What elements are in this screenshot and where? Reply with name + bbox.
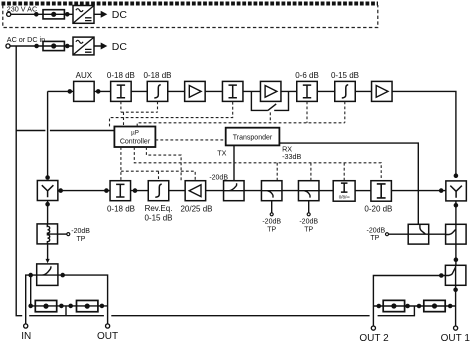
wire RA1 to REQ [131, 190, 149, 192]
junction dot Y2 bottom [454, 204, 457, 207]
dashed link controller-transponder [155, 139, 225, 141]
equalizer EQ1 0-18dB [147, 81, 168, 101]
svg-text:TP: TP [370, 235, 379, 242]
dashed riser A3 [306, 102, 308, 123]
dashed drop B5 to plug attenuator [343, 163, 345, 181]
svg-text:Transponder: Transponder [233, 135, 273, 142]
svg-text:AUX: AUX [76, 71, 93, 80]
junction dot AUX out [97, 90, 100, 93]
wire C2 to plug attenuator [319, 190, 333, 192]
wire plug att to 0-20dB att [355, 190, 371, 192]
output selector switch box S3 [445, 265, 466, 285]
junction dot Y1 right [59, 189, 62, 192]
dashed bus B3 [137, 123, 345, 127]
TX injection coupler [224, 181, 245, 201]
mains dashed enclosure [2, 4, 379, 28]
wire RA2 to Y2 [392, 190, 446, 192]
svg-text:0-15 dB: 0-15 dB [144, 213, 172, 222]
wire IN/OUT fuse rail [31, 305, 108, 307]
wire OUT1/OUT2 fuse rail [373, 305, 455, 307]
tap switch box (forward TP) [446, 224, 467, 244]
DC arrow 2 [101, 43, 108, 50]
wire S3 to OUT1 [455, 285, 457, 326]
svg-text:0-6 dB: 0-6 dB [295, 71, 319, 80]
svg-text:Rev.Eq.: Rev.Eq. [145, 204, 173, 213]
wire RX switch to tap switch [429, 233, 446, 235]
switch bypass S1 [268, 104, 276, 111]
dashed bus B1 [121, 111, 158, 113]
dashed bus B5 [134, 147, 381, 180]
wire C1 to C2 [282, 190, 298, 192]
junction dot Y1 top [46, 176, 49, 179]
diplex filter Y2 [446, 181, 467, 201]
equalizer EQ2 0-15dB [335, 81, 356, 101]
junction dot between switches [454, 258, 457, 261]
wire TP stub C1 [271, 201, 273, 213]
attenuator RA2 0-20dB [371, 181, 392, 202]
junction dots row 1 [35, 13, 38, 16]
junction dot into Y2 top [454, 174, 457, 177]
junction dot switch left [29, 274, 32, 277]
test point circle C1 [270, 213, 273, 216]
svg-text:OUT: OUT [97, 331, 118, 342]
svg-text:0-18 dB: 0-18 dB [107, 205, 135, 214]
test point circle RX TP [386, 233, 389, 236]
return amplifier RG 20/25dB [185, 181, 206, 201]
svg-text:AC or DC in: AC or DC in [7, 35, 45, 44]
wire Y2 bottom to tap switch [455, 201, 457, 224]
svg-text:0-18 dB: 0-18 dB [107, 71, 135, 80]
dashed control riser A1 [120, 102, 122, 113]
svg-text:TP: TP [304, 227, 313, 234]
power extraction coil box [37, 224, 58, 244]
wire REQ to return amp [169, 190, 185, 192]
svg-text:OUT 2: OUT 2 [359, 333, 389, 344]
svg-text:TP: TP [267, 227, 276, 234]
wire forward input riser (Y1 top to AUX line) [47, 91, 49, 177]
fuse F5 (OUT2) [383, 300, 404, 311]
wire bottom power line segment 2 [29, 315, 104, 317]
transponder U2 box [226, 128, 280, 146]
svg-text:DC: DC [112, 9, 128, 21]
junction dot switch right [61, 274, 64, 277]
svg-text:DC: DC [112, 41, 128, 53]
dashed drop B1 to controller [123, 112, 125, 126]
dashed drop B5 to TP coupler 1 [276, 163, 278, 181]
junction dot return in [105, 189, 108, 192]
AC/DC converter PSU1 [73, 6, 94, 24]
junction dot below S3 [454, 288, 457, 291]
wire RX TP circle to switch [389, 233, 409, 235]
junction dot Y1 bottom [46, 203, 49, 206]
wire mains row 2 [10, 45, 101, 47]
svg-text:0-15 dB: 0-15 dB [331, 71, 359, 80]
svg-text:-20dB: -20dB [71, 228, 90, 235]
controller U1 box [114, 127, 155, 148]
terminal OUT [106, 324, 110, 328]
test point circle C2 [307, 213, 310, 216]
plug attenuator 0/8/inf [333, 181, 355, 202]
svg-text:-33dB: -33dB [282, 152, 301, 161]
return attenuator RA1 0-18dB [110, 181, 131, 201]
svg-text:0-20 dB: 0-20 dB [364, 205, 392, 214]
svg-text:-20dB: -20dB [367, 228, 386, 235]
attenuator A2 [222, 81, 243, 101]
wire bottom power line segment 4 [378, 306, 415, 316]
attenuator A3 0-6dB [297, 81, 318, 101]
svg-text:-20dB: -20dB [209, 174, 228, 181]
terminal AC/DC input [6, 44, 10, 48]
wire Y1 bottom to coil coupler [47, 201, 49, 224]
amplifier G1 [185, 81, 206, 101]
svg-text:0/8/∞: 0/8/∞ [339, 194, 350, 199]
svg-text:-20dB: -20dB [262, 218, 281, 225]
svg-text:0-18 dB: 0-18 dB [143, 71, 171, 80]
wire RX from transponder to right riser [279, 143, 418, 224]
arrow into input switch [46, 259, 50, 263]
dashed bus B6 return row [121, 147, 195, 180]
wire IN port to switch [26, 275, 37, 324]
svg-text:µP: µP [131, 130, 139, 137]
test point circle coil [67, 233, 70, 236]
wire forward output to right riser [392, 91, 456, 177]
junction dot RA1 out [133, 189, 136, 192]
wire TX coupler to TP coupler 1 [244, 190, 261, 192]
svg-text:IN: IN [21, 331, 31, 342]
amplifier G2 with bypass [260, 81, 281, 101]
DC arrow 1 [101, 11, 108, 18]
input switch box S2 [37, 264, 58, 286]
dashed control riser EQ1 [157, 102, 159, 113]
wire S3 to OUT2 [373, 276, 445, 327]
AC/DC converter PSU2 [73, 37, 94, 55]
wire forward path AUX row [48, 90, 372, 92]
TP coupler C2 [298, 181, 319, 201]
svg-text:TP: TP [77, 236, 86, 243]
attenuator A1 0-18dB [111, 81, 131, 101]
RX test point switch box [408, 224, 429, 244]
svg-text:TX: TX [217, 148, 226, 157]
terminal IN [24, 324, 28, 328]
wire coil tap to test point [58, 233, 67, 235]
dashed drop B6 to return EQ [158, 171, 160, 180]
wire fuse rail riser left [30, 275, 32, 306]
TP coupler C1 [261, 181, 282, 201]
fuse F6 (OUT1) [424, 300, 445, 311]
junction dot into Y2 left [440, 189, 443, 192]
svg-text:20/25 dB: 20/25 dB [180, 205, 212, 214]
wire TX from transponder down [233, 145, 235, 180]
fuse F1 [43, 10, 64, 19]
terminal OUT2 [371, 326, 375, 330]
fuse F4 (OUT) [77, 300, 98, 311]
junction dots row 2 [35, 44, 38, 47]
svg-text:-20dB: -20dB [299, 218, 318, 225]
wire Y1 to return attenuator [58, 190, 110, 192]
dashed bus B4 to return amp [146, 147, 181, 180]
junction dot S3 left [440, 274, 443, 277]
dashed drop B5 to TP coupler 2 [310, 163, 312, 181]
wire bottom power line segment 3 [111, 315, 369, 317]
wire TP stub C2 [308, 201, 310, 213]
amplifier AUX input block [74, 81, 95, 101]
wire coil to input switch [47, 244, 49, 260]
junction dots OUT rail [377, 304, 452, 307]
fuse F3 (IN) [35, 300, 56, 311]
dashed bus B2 with riser A2 [110, 102, 233, 127]
terminal 230V input [7, 12, 11, 16]
amplifier G3 output [372, 81, 393, 101]
svg-text:230 V AC: 230 V AC [7, 5, 37, 14]
wire controller supply line [16, 130, 114, 132]
wire tap switch to out switch [455, 244, 457, 265]
diplex filter Y1 [37, 181, 58, 201]
dashed riser bypass switch [269, 112, 271, 122]
terminal OUT1 [454, 326, 458, 330]
junction dots IN/OUT rail [29, 304, 103, 307]
dashed riser EQ2 [344, 102, 346, 123]
wire left power feed vertical [16, 46, 22, 316]
svg-text:OUT 1: OUT 1 [441, 333, 471, 344]
wire switch to OUT port [58, 275, 108, 324]
wire rail to power line riser [65, 306, 67, 316]
wire return amp to TX coupler [206, 190, 224, 192]
junction dot AUX in [68, 90, 71, 93]
wire bypass loop around G2 [251, 91, 288, 110]
wire mains row 1 [11, 13, 101, 15]
return equalizer REQ [148, 181, 169, 201]
svg-text:Controller: Controller [120, 139, 151, 146]
fuse F2 [43, 41, 64, 50]
